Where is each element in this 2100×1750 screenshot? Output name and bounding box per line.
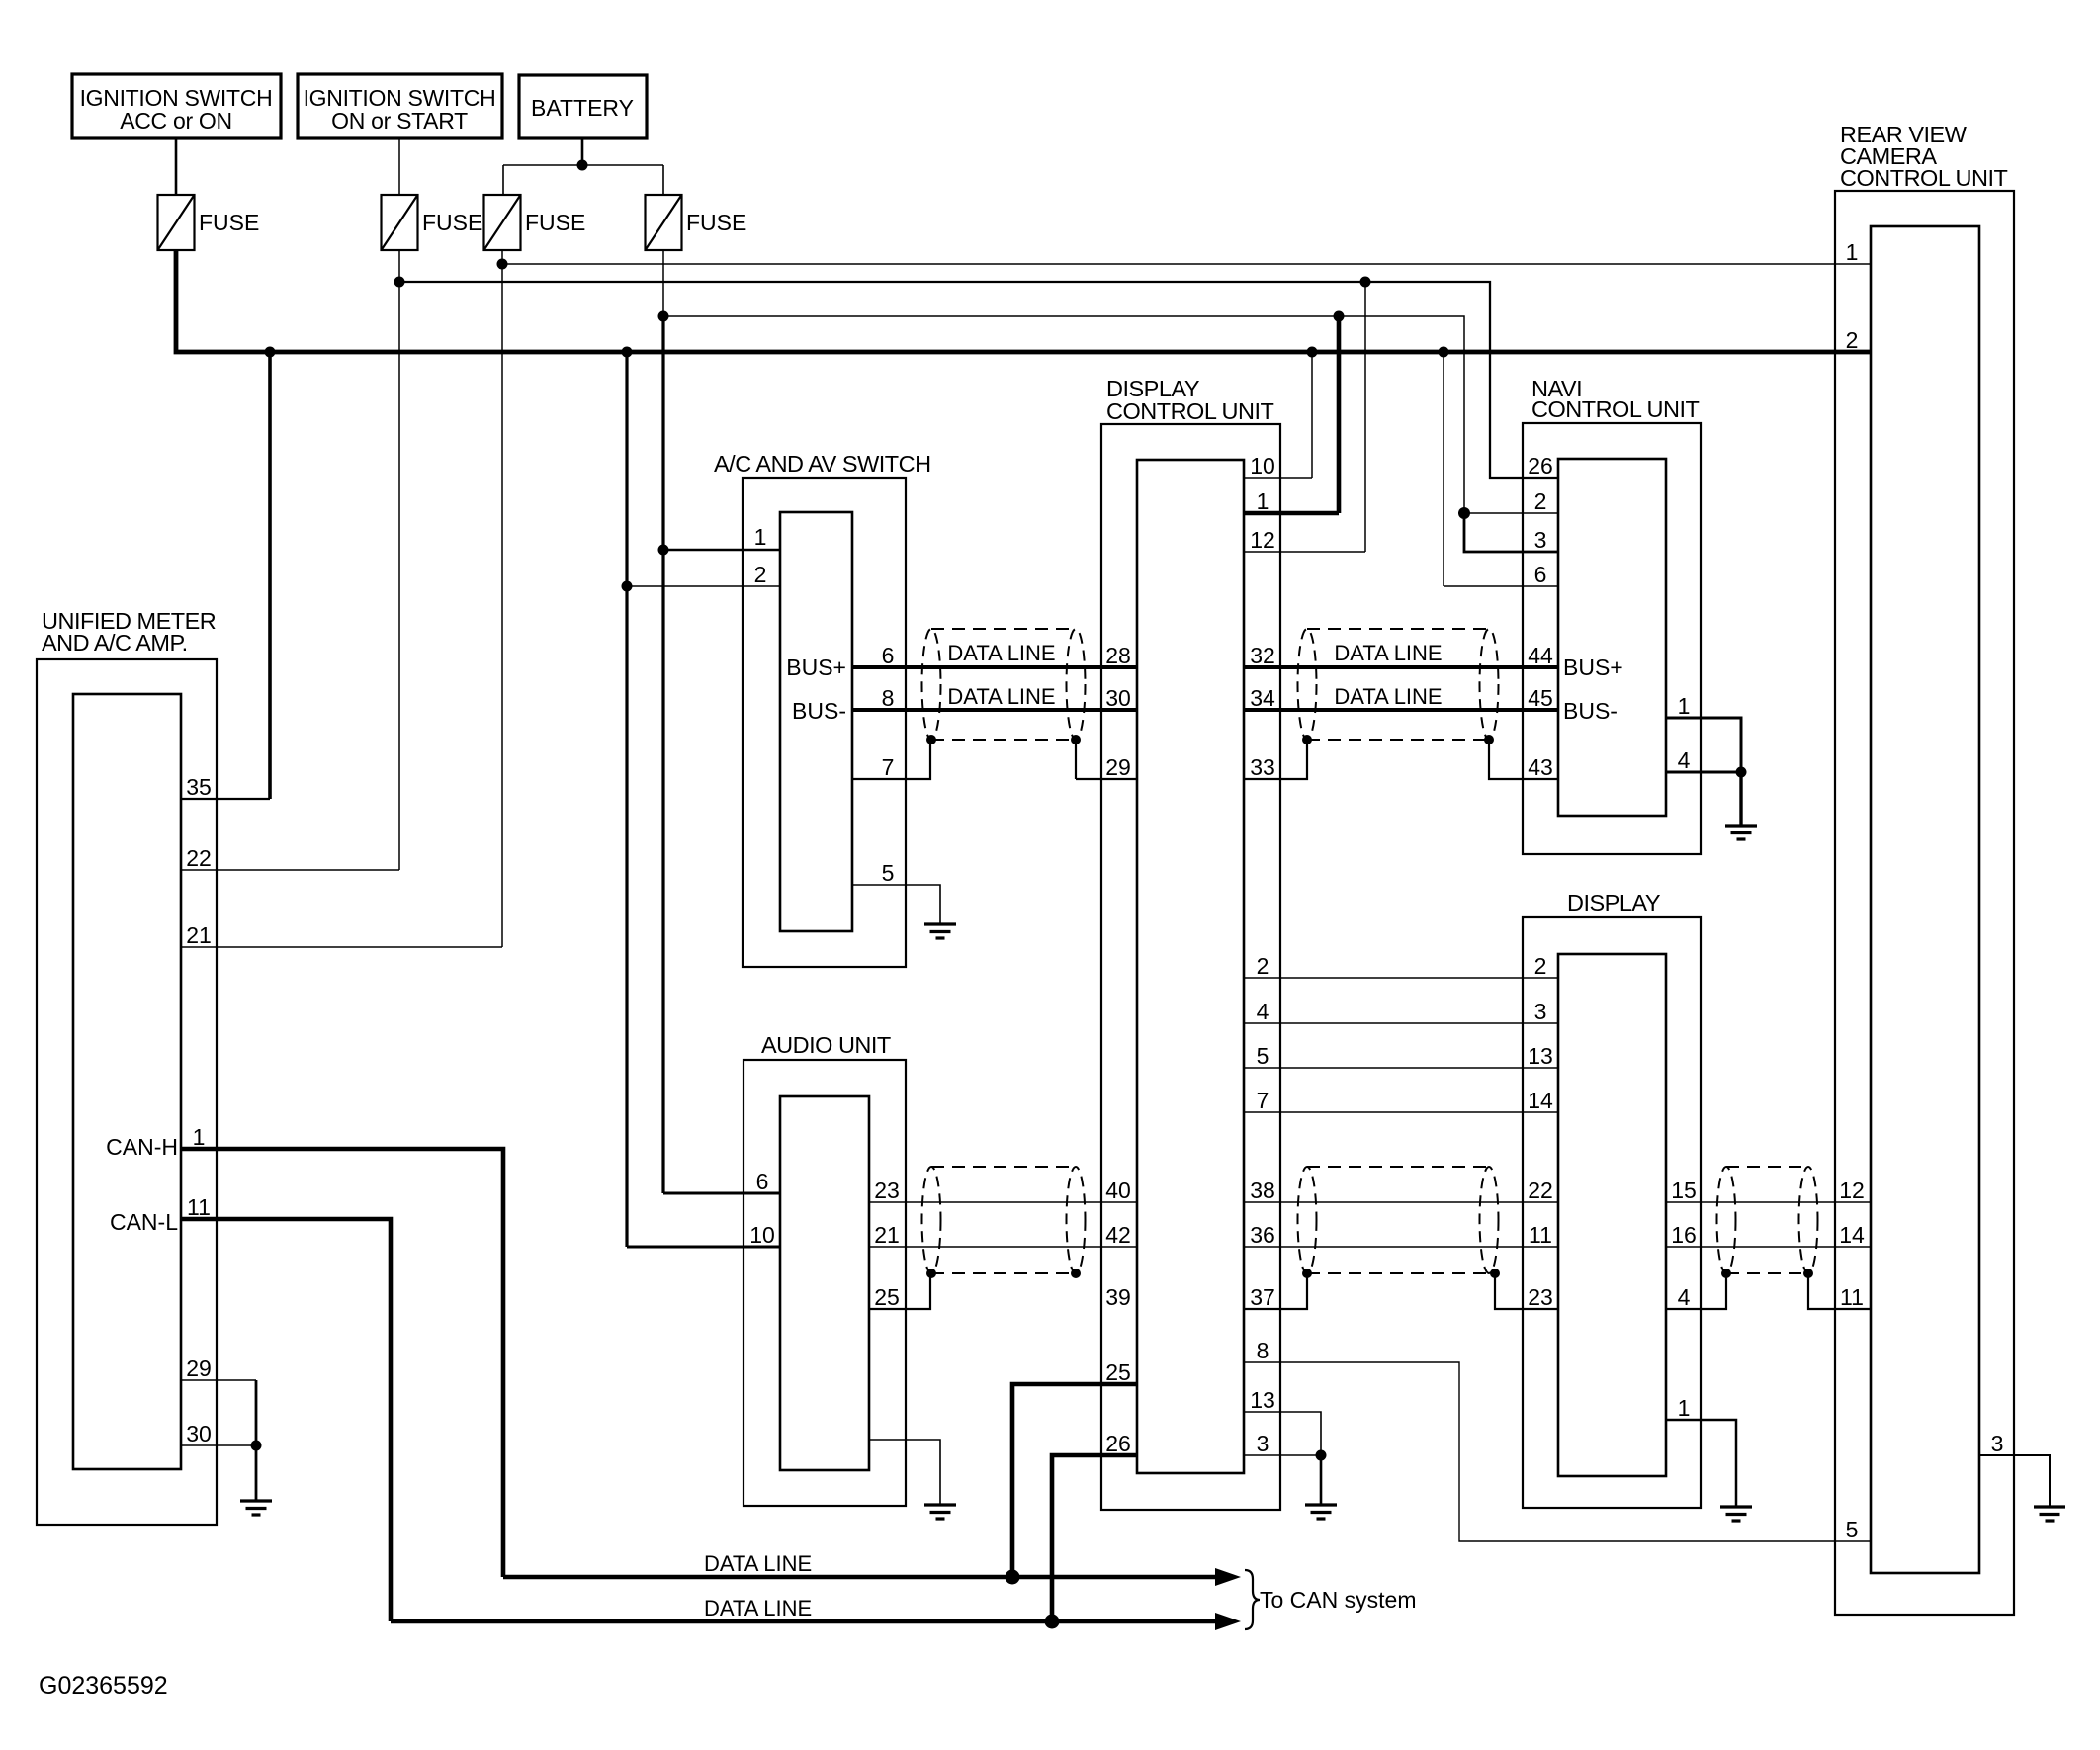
- svg-text:36: 36: [1250, 1222, 1275, 1248]
- wire data line: A/C pin 8 to display control unit pin 30: [852, 708, 1137, 712]
- wire row A: F3 to REAR VIEW CAMERA pin 1: [502, 263, 1871, 265]
- svg-text:12: 12: [1839, 1178, 1865, 1203]
- shield: A/C switch to display control unit data lines: [922, 629, 1086, 740]
- svg-text:3: 3: [1257, 1431, 1269, 1456]
- wire: x273 vertical (ACC feed to pin 35): [268, 352, 272, 799]
- wire: F4 vertical down to audio unit pin 6: [661, 316, 664, 1193]
- junction F3 / row A: [497, 259, 508, 270]
- wire: bus to fuse F4: [662, 165, 664, 195]
- shield: display to rear view camera control unit: [1717, 1167, 1818, 1273]
- wire: ACC switch to fuse F1: [175, 138, 178, 195]
- svg-text:BUS+: BUS+: [1563, 655, 1623, 680]
- svg-text:40: 40: [1105, 1178, 1131, 1203]
- fuse F4 (battery right): [646, 195, 682, 250]
- svg-text:6: 6: [882, 643, 895, 668]
- unified meter inner box: [73, 694, 181, 1469]
- junction F4 vertical / A/C pin 1: [658, 545, 669, 556]
- wire: display pin 15 to rear view camera pin 12: [1666, 1201, 1871, 1203]
- svg-text:DATA LINE: DATA LINE: [1334, 641, 1442, 665]
- wire: NAVI pin 6: [1444, 585, 1558, 587]
- junction F4 / row C: [658, 311, 669, 322]
- display inner box: [1558, 954, 1666, 1476]
- svg-text:CAN-L: CAN-L: [110, 1209, 178, 1235]
- svg-text:11: 11: [1840, 1284, 1864, 1310]
- rear view camera control unit outer box: [1835, 191, 2014, 1615]
- svg-text:4: 4: [1257, 999, 1269, 1024]
- svg-text:2: 2: [1257, 953, 1269, 979]
- unified meter outer box: [37, 659, 217, 1525]
- svg-text:4: 4: [1678, 747, 1691, 773]
- svg-text:10: 10: [749, 1222, 775, 1248]
- junction row D / x273: [265, 347, 276, 358]
- junction row C / x1354: [1334, 311, 1345, 322]
- svg-text:10: 10: [1250, 453, 1275, 479]
- svg-text:1: 1: [1678, 693, 1691, 719]
- wire: display control unit pin 3: [1244, 1454, 1321, 1456]
- svg-text:DATA LINE: DATA LINE: [1334, 684, 1442, 709]
- svg-text:A/C AND AV SWITCH: A/C AND AV SWITCH: [714, 451, 931, 477]
- drain dot shield 3 right: [1071, 1269, 1081, 1278]
- wire: battery bus bar: [503, 164, 663, 166]
- wire: audio pin 23 to display control unit pin 40: [869, 1201, 1137, 1203]
- drain dot shield 1 left: [926, 735, 936, 744]
- wire: A/C pin 7 to shield drain: [852, 740, 930, 779]
- wire: A/C pin 5 to ground: [852, 885, 940, 924]
- drain dot shield 2 left: [1302, 735, 1312, 744]
- svg-text:44: 44: [1528, 643, 1553, 668]
- junction row D / x1327: [1307, 347, 1318, 358]
- wire: F4 down: [662, 250, 664, 316]
- svg-text:30: 30: [186, 1421, 212, 1446]
- wire: to ground under display control unit: [1320, 1455, 1323, 1505]
- wire: display control unit to display row y=989: [1244, 977, 1558, 979]
- svg-text:1: 1: [1678, 1395, 1691, 1421]
- ground: unified meter: [240, 1501, 272, 1515]
- svg-text:FUSE: FUSE: [525, 210, 585, 235]
- wire: NAVI pin 1: [1666, 718, 1741, 772]
- junction CAN-L / display control unit pin 26: [1045, 1615, 1060, 1629]
- wire: rear view camera pin 3 to ground: [1979, 1455, 2050, 1507]
- wire: unified meter pin 29: [181, 1379, 256, 1381]
- ground: NAVI control unit: [1725, 826, 1757, 839]
- wire: NAVI pin 3: [1464, 513, 1558, 552]
- junction NAVI pins 1/4: [1736, 767, 1747, 778]
- svg-text:1: 1: [193, 1124, 206, 1150]
- wire data line: A/C pin 6 to display control unit pin 28: [852, 665, 1137, 669]
- svg-text:DISPLAY: DISPLAY: [1567, 890, 1661, 916]
- wire: F3 down to unified meter pin 21: [501, 250, 503, 947]
- svg-text:CONTROL UNIT: CONTROL UNIT: [1106, 398, 1274, 424]
- wire: NAVI pin 4: [1666, 771, 1741, 774]
- ground: display: [1720, 1507, 1752, 1521]
- svg-text:1: 1: [1846, 239, 1859, 265]
- wire: display control unit pin 1: [1244, 511, 1339, 516]
- svg-text:BUS-: BUS-: [792, 698, 846, 724]
- svg-text:26: 26: [1528, 453, 1553, 479]
- wire: audio pin 25 to shield drain: [869, 1273, 930, 1309]
- svg-text:26: 26: [1105, 1431, 1131, 1456]
- svg-text:8: 8: [1257, 1338, 1269, 1363]
- wire: to ground under NAVI: [1739, 772, 1742, 826]
- box: BATTERY: [519, 75, 647, 138]
- svg-text:FUSE: FUSE: [422, 210, 482, 235]
- wire: row B branch down to display control unit pin 12: [1364, 282, 1366, 552]
- svg-text:21: 21: [874, 1222, 900, 1248]
- svg-text:5: 5: [1257, 1043, 1269, 1069]
- svg-text:39: 39: [1105, 1284, 1131, 1310]
- drain dot shield 4 right: [1490, 1269, 1500, 1278]
- junction pins 13/3: [1316, 1450, 1327, 1461]
- svg-text:35: 35: [186, 774, 212, 800]
- rear view camera control unit inner box: [1871, 226, 1979, 1573]
- wire: display control unit pin 36 to display pin 11: [1244, 1246, 1558, 1248]
- svg-text:22: 22: [186, 845, 212, 871]
- NAVI control unit outer box: [1523, 423, 1701, 854]
- NAVI control unit inner box: [1558, 459, 1666, 816]
- wire: row C branch down to display control unit pin 1: [1337, 316, 1342, 513]
- svg-text:AUDIO UNIT: AUDIO UNIT: [761, 1032, 891, 1058]
- svg-text:2: 2: [1534, 953, 1547, 979]
- svg-text:22: 22: [1528, 1178, 1553, 1203]
- junction CAN-H / display control unit pin 25: [1006, 1570, 1020, 1585]
- wire row D: F1 to REAR VIEW CAMERA pin 2: [176, 250, 1871, 352]
- svg-text:2: 2: [1846, 327, 1859, 353]
- svg-text:11: 11: [187, 1194, 211, 1220]
- wire: audio unit case to ground: [869, 1440, 940, 1505]
- svg-text:32: 32: [1250, 643, 1275, 668]
- wire: unified meter pin 21: [181, 946, 502, 948]
- ground: rear view camera control unit: [2034, 1507, 2065, 1521]
- fuse F3 (battery left): [484, 195, 521, 250]
- svg-text:To CAN system: To CAN system: [1260, 1587, 1416, 1613]
- svg-text:14: 14: [1528, 1088, 1553, 1113]
- wire: display control unit pin 26 to CAN data line: [1052, 1455, 1137, 1621]
- wire: ON/START switch to fuse F2: [398, 138, 400, 195]
- wire: rear view camera pin 11 to shield drain: [1808, 1273, 1871, 1309]
- junction F2 / row B: [394, 277, 405, 288]
- svg-text:3: 3: [1534, 999, 1547, 1024]
- svg-text:FUSE: FUSE: [199, 210, 259, 235]
- svg-text:FUSE: FUSE: [686, 210, 746, 235]
- drain dot shield 4 left: [1302, 1269, 1312, 1278]
- svg-text:23: 23: [1528, 1284, 1553, 1310]
- svg-text:30: 30: [1105, 685, 1131, 711]
- drain dot shield 2 right: [1484, 735, 1494, 744]
- wire: display control unit pin 13: [1244, 1412, 1321, 1455]
- svg-text:8: 8: [882, 685, 895, 711]
- wire: display control unit pin 38 to display pin 22: [1244, 1201, 1558, 1203]
- junction x634 / A/C pin 2: [622, 581, 633, 592]
- wire data line: display control unit pin 34 to NAVI pin 45: [1244, 708, 1558, 712]
- svg-text:16: 16: [1671, 1222, 1697, 1248]
- junction row B / x1381: [1360, 277, 1371, 288]
- svg-text:BUS+: BUS+: [786, 655, 846, 680]
- svg-text:7: 7: [1257, 1088, 1269, 1113]
- wire: display pin 1 to ground: [1666, 1420, 1736, 1507]
- svg-text:DATA LINE: DATA LINE: [704, 1596, 812, 1620]
- wire CAN-L: pin 11 down to data line: [181, 1219, 391, 1621]
- svg-text:21: 21: [186, 922, 212, 948]
- wire: row D branch x634 down to audio unit pin 10: [625, 352, 628, 1247]
- svg-text:CONTROL UNIT: CONTROL UNIT: [1840, 165, 2008, 191]
- svg-text:11: 11: [1529, 1222, 1552, 1248]
- wire: NAVI pin 43 to shield drain: [1489, 740, 1558, 779]
- drain dot shield 5 right: [1803, 1269, 1813, 1278]
- svg-text:15: 15: [1671, 1178, 1697, 1203]
- wire: row D branch to NAVI pin 6: [1443, 352, 1444, 586]
- wire: battery drop: [581, 138, 584, 165]
- wire row C: F4 to NAVI pin 2: [663, 316, 1464, 513]
- svg-text:7: 7: [882, 754, 895, 780]
- junction row D / x634: [622, 347, 633, 358]
- svg-text:29: 29: [186, 1356, 212, 1381]
- A/C and AV switch inner box: [780, 512, 852, 931]
- wire: display control unit pin 25 to CAN data line: [1012, 1384, 1137, 1577]
- wire: display control unit pin 29: [1076, 778, 1137, 780]
- wire: F2 down to unified meter pin 22: [398, 250, 400, 870]
- wire: audio unit pin 10: [627, 1246, 780, 1249]
- drain dot shield 5 left: [1721, 1269, 1731, 1278]
- svg-text:1: 1: [1257, 488, 1269, 514]
- svg-text:45: 45: [1528, 685, 1553, 711]
- svg-text:1: 1: [754, 524, 767, 550]
- shield: display control unit to display: [1298, 1167, 1499, 1273]
- wire: display pin 4 to shield drain: [1666, 1273, 1726, 1309]
- svg-text:3: 3: [1534, 527, 1547, 553]
- wire CAN-H data line with arrow to CAN system: [503, 1568, 1241, 1586]
- svg-text:2: 2: [754, 562, 767, 587]
- A/C and AV switch outer box: [743, 478, 906, 967]
- display control unit outer box: [1101, 424, 1280, 1510]
- svg-text:37: 37: [1250, 1284, 1275, 1310]
- wire: display control unit pin 37 to shield drain: [1244, 1273, 1307, 1309]
- svg-text:34: 34: [1250, 685, 1275, 711]
- wire: A/C and AV switch pin 1: [663, 549, 780, 551]
- wire: display pin 23 to shield drain: [1495, 1273, 1558, 1309]
- wire: display control unit pin 33 to shield drain: [1244, 740, 1307, 779]
- wire: unified meter pin 30: [181, 1444, 256, 1446]
- wire: display control unit pin 12: [1244, 551, 1365, 553]
- junction pins 29/30: [251, 1441, 262, 1451]
- svg-text:CONTROL UNIT: CONTROL UNIT: [1531, 396, 1700, 422]
- junction: battery bus: [577, 160, 588, 171]
- svg-text:28: 28: [1105, 643, 1131, 668]
- svg-text:25: 25: [1105, 1359, 1131, 1385]
- wire: audio unit pin 6: [663, 1192, 780, 1195]
- wire: display control unit to display row y=1035: [1244, 1022, 1558, 1024]
- wire row B: F2 to NAVI pin 26: [399, 282, 1558, 478]
- svg-text:29: 29: [1105, 754, 1131, 780]
- brace To CAN system: [1245, 1570, 1260, 1629]
- svg-text:6: 6: [756, 1169, 769, 1194]
- wire: display control unit pin 10: [1244, 477, 1312, 479]
- ground: display control unit: [1305, 1505, 1337, 1519]
- svg-text:DATA LINE: DATA LINE: [947, 684, 1055, 709]
- svg-text:43: 43: [1528, 754, 1553, 780]
- fuse F1 (ACC): [158, 195, 195, 250]
- drain dot shield 3 left: [926, 1269, 936, 1278]
- svg-text:3: 3: [1991, 1431, 2004, 1456]
- svg-text:CAN-H: CAN-H: [106, 1134, 178, 1160]
- wire CAN-H: pin 1 down to data line: [181, 1149, 503, 1577]
- svg-text:6: 6: [1534, 562, 1547, 587]
- svg-text:25: 25: [874, 1284, 900, 1310]
- shield: audio unit to display control unit: [922, 1167, 1086, 1273]
- svg-text:ACC or ON: ACC or ON: [120, 108, 232, 133]
- audio unit outer box: [744, 1060, 906, 1506]
- drain dot shield 1 right: [1071, 735, 1081, 744]
- wire: display control unit to display row y=1080: [1244, 1067, 1558, 1069]
- svg-text:DATA LINE: DATA LINE: [704, 1551, 812, 1576]
- wire CAN-L data line with arrow to CAN system: [391, 1613, 1241, 1630]
- wire: NAVI pin 2: [1464, 512, 1558, 514]
- wire: unified meter pin 35: [181, 798, 270, 800]
- wire data line: display control unit pin 32 to NAVI pin 44: [1244, 665, 1558, 669]
- svg-text:13: 13: [1250, 1387, 1275, 1413]
- box: IGNITION SWITCH ON or START: [298, 74, 502, 138]
- ground: A/C and AV switch: [924, 924, 956, 938]
- svg-text:ON or START: ON or START: [331, 108, 468, 133]
- svg-text:42: 42: [1105, 1222, 1131, 1248]
- junction row D / x1460: [1439, 347, 1449, 358]
- wire: pin 29 shield drain: [1075, 740, 1077, 779]
- wire: bus to fuse F3: [502, 165, 504, 195]
- svg-text:2: 2: [1534, 488, 1547, 514]
- svg-text:BUS-: BUS-: [1563, 698, 1618, 724]
- svg-text:4: 4: [1678, 1284, 1691, 1310]
- junction NAVI pin 2: [1458, 507, 1470, 519]
- wire: A/C and AV switch pin 2: [627, 585, 780, 587]
- wire: display control unit pin 8 to rear view camera pin 5: [1244, 1362, 1871, 1541]
- wire: audio pin 21 to display control unit pin 42: [869, 1246, 1137, 1248]
- svg-text:33: 33: [1250, 754, 1275, 780]
- svg-text:38: 38: [1250, 1178, 1275, 1203]
- wire: pin 29 to pin 30 junction: [255, 1380, 258, 1445]
- svg-text:BATTERY: BATTERY: [531, 95, 634, 121]
- wire: to ground under unified meter: [255, 1445, 258, 1501]
- shield: display control unit to NAVI data lines: [1298, 629, 1499, 740]
- svg-text:DATA LINE: DATA LINE: [947, 641, 1055, 665]
- wire: unified meter pin 22: [181, 869, 399, 871]
- svg-text:5: 5: [1846, 1517, 1859, 1542]
- display outer box: [1523, 917, 1701, 1508]
- svg-text:12: 12: [1250, 527, 1275, 553]
- wire: display pin 16 to rear view camera pin 14: [1666, 1246, 1871, 1248]
- svg-text:5: 5: [882, 860, 895, 886]
- wire: display control unit to display row y=1125: [1244, 1111, 1558, 1113]
- svg-text:23: 23: [874, 1178, 900, 1203]
- svg-text:AND A/C AMP.: AND A/C AMP.: [42, 630, 188, 656]
- box: IGNITION SWITCH ACC or ON: [72, 74, 281, 138]
- audio unit inner box: [780, 1096, 869, 1470]
- wire: row D branch to display control unit pin 10: [1311, 352, 1313, 478]
- fuse F2 (ON or START): [382, 195, 418, 250]
- svg-text:G02365592: G02365592: [39, 1672, 168, 1700]
- svg-text:14: 14: [1839, 1222, 1865, 1248]
- ground: audio unit: [924, 1505, 956, 1519]
- svg-text:13: 13: [1528, 1043, 1553, 1069]
- display control unit inner box: [1137, 460, 1244, 1473]
